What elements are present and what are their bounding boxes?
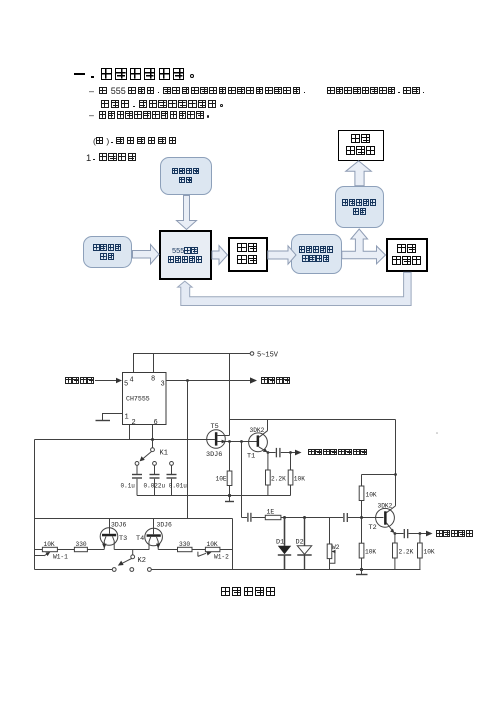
node: pin3 feedback tap	[186, 379, 189, 382]
pin1 ground	[96, 414, 123, 421]
svg-text:T3: T3	[119, 535, 127, 543]
svg-text:10K: 10K	[207, 541, 218, 548]
wire lower box top edge	[35, 518, 233, 520]
svg-text:6: 6	[154, 419, 158, 427]
control voltage arrow into pin 5	[95, 378, 122, 383]
svg-text:10K: 10K	[424, 549, 435, 556]
svg-text:0.01u: 0.01u	[169, 483, 187, 490]
wire timing bus	[35, 439, 215, 441]
potentiometer W2	[327, 518, 335, 570]
node: D1 tap	[283, 516, 286, 519]
capacitor C1 0.1u	[132, 465, 142, 495]
wire	[192, 549, 205, 551]
arrow: diode block to sine out	[346, 161, 372, 186]
svg-text:2: 2	[132, 419, 136, 427]
svg-text:1: 1	[125, 414, 129, 422]
svg-text:CH7555: CH7555	[126, 396, 150, 403]
resistor 10K (W1-2)	[205, 547, 220, 551]
node: bus junction	[151, 438, 154, 441]
resistor 330 (right)	[178, 547, 193, 551]
wire signal drop to diode shaper	[241, 442, 243, 518]
arrow: freq to 555	[133, 245, 160, 265]
capacitor C2 0.022u	[150, 465, 160, 495]
svg-text:1E: 1E	[267, 509, 275, 516]
arrow: amplitude to 555	[177, 196, 197, 230]
svg-text:0.022u: 0.022u	[144, 483, 166, 490]
capacitor triangle output coupling	[268, 448, 296, 457]
svg-text:T4: T4	[136, 535, 144, 543]
node: D2 tap	[303, 516, 306, 519]
capacitor sine output coupling	[395, 529, 428, 538]
wire	[220, 549, 233, 551]
wire feedback from pin3 down to lower section	[187, 381, 189, 519]
wire collector feed rail	[230, 419, 396, 421]
svg-text:T5: T5	[211, 423, 219, 431]
resistor 10K (T2 feedback)	[359, 475, 364, 518]
wire lower box right edge	[232, 519, 234, 570]
svg-text:D1: D1	[276, 539, 284, 547]
arrow: square to current source	[268, 246, 296, 264]
wire capacitor ground bus	[137, 495, 291, 497]
node: signal drop junction	[240, 440, 243, 443]
transistor T4 3DJ6	[145, 519, 163, 550]
svg-text:T1: T1	[247, 453, 255, 461]
block: amplitude adjust	[160, 157, 212, 196]
wire ground bus bottom right	[151, 569, 420, 571]
block: frequency adjust	[83, 236, 132, 268]
node: T1 emitter junction	[267, 451, 270, 454]
transistor T2 3DK2	[376, 506, 396, 533]
stray mark	[436, 432, 438, 434]
block: current source charge	[291, 234, 342, 274]
wire	[87, 549, 104, 551]
wire rail drop to transistors	[229, 354, 231, 436]
resistor 330 (left)	[74, 547, 87, 551]
svg-text:10K: 10K	[366, 492, 377, 499]
svg-text:2.2K: 2.2K	[399, 549, 414, 556]
resistor 2.2K (T2 emitter)	[393, 534, 398, 570]
resistor 2.2K (T1 emitter)	[266, 453, 271, 496]
wire pin8 to rail	[153, 354, 155, 373]
wire between T3 and T4	[114, 549, 149, 551]
node: T5 source junction	[228, 440, 231, 443]
svg-text:D2: D2	[296, 539, 304, 547]
svg-text:5~15V: 5~15V	[257, 352, 279, 360]
svg-text:3DK2: 3DK2	[378, 503, 393, 510]
node: feedback branch	[394, 473, 397, 476]
wire feedback branch	[362, 474, 396, 476]
ground at output stage	[356, 568, 368, 575]
svg-text:3DJ6: 3DJ6	[111, 522, 127, 529]
resistor 10K (triangle output load)	[288, 453, 293, 496]
arrow: current source to triangle, with branch up to diode block	[342, 229, 386, 264]
triangle/sawtooth output arrow	[295, 450, 302, 456]
node: T2 base junction	[360, 516, 363, 519]
diode D2	[297, 518, 311, 570]
svg-text:10E: 10E	[216, 476, 227, 483]
resistor 10E (T5 source)	[227, 442, 232, 496]
svg-text:3: 3	[161, 381, 165, 389]
feedback path: triangle out back to 555	[178, 272, 412, 305]
block: sine out	[338, 130, 384, 161]
potentiometer W1-1 wiper	[35, 552, 51, 556]
wire left rail	[34, 440, 36, 570]
node: sine output divider	[419, 532, 422, 535]
transistor T3 3DJ6	[100, 519, 118, 550]
svg-text:330: 330	[179, 541, 190, 548]
resistor 1E	[265, 515, 343, 519]
svg-text:K1: K1	[160, 450, 168, 458]
svg-text:3DK2: 3DK2	[250, 427, 265, 434]
resistor 10K (sine output load)	[418, 534, 423, 570]
wire lower box bottom left	[35, 569, 113, 571]
ground at capacitor bus	[225, 494, 234, 502]
wire	[57, 549, 74, 551]
block: 555 schmitt	[159, 230, 212, 280]
wire pins 2,6 to bus	[130, 425, 153, 440]
transistor T1 3DK2	[249, 420, 268, 453]
svg-text:2.2K: 2.2K	[271, 476, 286, 483]
IC U1 CH7555 555-timer	[123, 373, 167, 428]
svg-text:8: 8	[151, 376, 155, 384]
wire T2 collector drop	[395, 420, 397, 506]
wire	[158, 549, 177, 551]
node: T2 emitter junction	[394, 532, 397, 535]
svg-text:330: 330	[76, 541, 87, 548]
switch K2	[112, 550, 151, 572]
svg-text:K2: K2	[138, 557, 146, 565]
resistor 10K (W1-1)	[42, 547, 57, 551]
sine output arrow	[426, 531, 433, 537]
wire signal to diode shaper	[242, 513, 266, 522]
svg-text:0.1u: 0.1u	[121, 483, 136, 490]
block: diode shaping	[335, 186, 384, 228]
capacitor T2 base coupling	[344, 513, 384, 522]
svg-text:W1-2: W1-2	[214, 554, 229, 561]
potentiometer W1-2 wiper	[198, 551, 212, 556]
switch K1	[135, 440, 173, 466]
svg-text:10K: 10K	[44, 541, 55, 548]
wire left chain	[35, 549, 43, 551]
svg-text:4: 4	[130, 377, 134, 385]
resistor 10K (T2 base bias)	[359, 518, 364, 570]
transistor T5 3DJ6	[207, 430, 257, 449]
svg-text:3DJ6: 3DJ6	[206, 451, 222, 459]
arrow: 555 to square	[212, 246, 228, 265]
svg-text:T2: T2	[369, 524, 377, 532]
diode D1	[278, 518, 291, 570]
svg-text:5: 5	[124, 381, 128, 389]
svg-text:W2: W2	[332, 544, 340, 551]
svg-text:W1-1: W1-1	[53, 554, 68, 561]
capacitor C3 0.01u	[167, 465, 177, 495]
svg-text:3DJ6: 3DJ6	[157, 522, 173, 529]
wire pin3 square wave output	[166, 377, 257, 383]
svg-text:10K: 10K	[365, 549, 376, 556]
block: square wave out	[228, 237, 268, 272]
wire pin4 to rail	[133, 354, 135, 373]
svg-text:10K: 10K	[294, 476, 305, 483]
node: output divider junction	[289, 451, 292, 454]
power rail 5~15V	[133, 352, 254, 356]
block: triangle out	[386, 238, 428, 272]
